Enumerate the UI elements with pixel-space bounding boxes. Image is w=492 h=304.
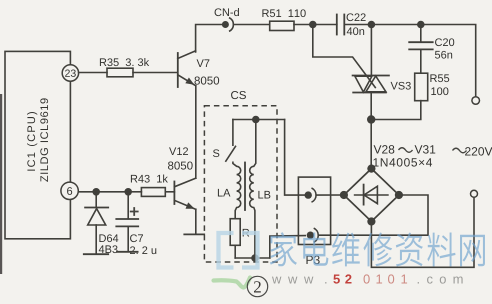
P3 label [306,256,319,264]
junction node C [417,21,425,29]
capacitor C7 2.2u [116,192,156,254]
transistor V7 8050 [178,51,219,87]
connector P3 pin 2 [307,228,319,242]
wire V7 emitter to V12 collector [195,86,197,179]
wire C20 to node C [420,25,422,43]
ground C7 [117,251,138,253]
junction node A [309,21,317,29]
IC U1 label IC1 (CPU) [27,112,37,171]
connector P3 pin 1 [305,188,317,202]
junction node F LB bottom [251,254,259,262]
label ~220V [453,148,467,153]
wire CS rail to P3 pin 1 [285,120,305,196]
wire bridge bottom to terminal 2 [371,197,474,267]
wire P3 pin 1 to bridge left [316,194,344,196]
junction node E LB top [252,116,260,124]
inductor LB [250,120,271,258]
wire V12 emitter to ground [195,209,197,233]
wire pin6 to node E1 [78,191,96,193]
connector P3 box [298,177,330,244]
wire CS bottom to P3 pin 2 [270,236,305,258]
wire R43 to V12 base [165,191,174,193]
wire C22 to node B [344,24,371,26]
connector CN-d [215,8,239,31]
switch S [213,120,236,162]
junction node D [367,115,375,123]
bridge rectifier V28-V31 1N4005x4 [340,145,435,225]
pin 23 [62,65,78,81]
resistor R43 1k [131,175,168,197]
wire node C to terminal 1 [421,25,476,97]
junction node E1 [92,188,100,196]
wire R55 to C20 [420,49,422,73]
transformer core [244,163,246,211]
wire node A to C22 [313,24,337,26]
wire triac gate from node A [313,25,376,88]
scan paper edge shadow left [0,94,2,274]
resistor R55 100 [415,73,450,101]
transistor V12 8050 [168,147,196,209]
wire pin23 to R35 [79,72,107,74]
resistor R35 3.3k [100,58,149,77]
wire node E1 to node E2 [96,191,128,193]
wire R to CS bottom rail [234,245,236,258]
diode D64 4B3 [85,192,118,253]
CS label [231,91,246,99]
ground D64 [84,253,108,255]
terminal mains 2 [471,190,478,197]
wire node E2 to R43 [128,191,141,193]
capacitor C20 56n [409,38,454,58]
wire node D to R55 [371,101,421,120]
wire CS bottom rail [235,257,270,259]
junction node E2 [124,188,132,196]
triac VS3 [353,76,411,93]
inductor LA [218,162,241,219]
pin 6 [61,182,78,199]
wire P3 pin 2 to bridge right [318,195,428,235]
junction node B [368,21,376,29]
wire CN-d to R51 [234,24,270,26]
wire V7 collector to CN-d [196,25,223,53]
wire node B to node C [371,24,420,26]
wire R51 to node A [294,24,313,26]
wire CS top rail [233,119,285,121]
wire VS3 MT1 to node D [370,93,372,120]
terminal mains 1 [472,97,480,105]
section number 2 [247,276,267,296]
watermark overlay [214,232,485,287]
IC U1 box IC1 CPU [5,51,70,238]
wire node D to bridge top [370,120,372,166]
resistor R51 110 [262,9,305,30]
capacitor C22 40n [337,13,366,35]
wire R35 to V7 base [133,72,177,74]
resistor R sense [230,219,249,246]
ground V12 emitter [184,233,204,235]
IC U1 label ZILDG ICL9619 [40,98,48,181]
CS module dashed box [204,106,277,262]
wire node B to VS3 MT2 [370,25,372,76]
